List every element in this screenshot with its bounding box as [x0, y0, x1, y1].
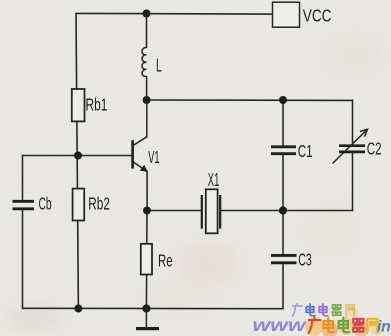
- svg-text:Rb2: Rb2: [88, 194, 110, 214]
- wire bottom ground rail: [23, 307, 284, 309]
- node: C1-C2-C3-X1 junction: [279, 206, 287, 214]
- watermark line2 collage characters: [309, 317, 321, 333]
- inductor L: [142, 47, 147, 76]
- watermark line1 character dian: [306, 304, 315, 316]
- wire C1 bottom through node to C3 top: [282, 155, 284, 254]
- resistor Rb2: [73, 189, 85, 221]
- node: base junction: [74, 152, 82, 160]
- wire emitter node to Re and ground rail: [145, 211, 148, 309]
- transistor V1 emitter diagonal: [133, 162, 147, 171]
- wire left rail: [76, 14, 78, 309]
- wire C2 bottom to node: [283, 153, 353, 210]
- ground bar: [136, 327, 159, 330]
- node: emitter rail bottom junction: [142, 304, 150, 312]
- watermark blobs: [305, 307, 384, 336]
- watermark line1 character qi: [333, 305, 341, 315]
- wire inductor bottom to collector node: [146, 77, 148, 101]
- wire VCC rail to inductor top: [146, 14, 148, 48]
- transistor V1 base bar: [131, 140, 134, 169]
- resistor Rb1: [72, 89, 85, 121]
- watermark line1 character wang: [346, 305, 354, 316]
- wire collector: [133, 100, 147, 146]
- node: emitter / X1 junction: [143, 207, 151, 215]
- wire C3 bottom to ground rail: [282, 264, 284, 309]
- wire base node to Cb: [23, 156, 79, 202]
- svg-text:Re: Re: [158, 251, 173, 271]
- wire C2 top drop: [352, 100, 354, 144]
- svg-text:V1: V1: [148, 147, 159, 167]
- wire emitter vertical: [146, 171, 148, 211]
- transistor V1 emitter arrowhead: [140, 165, 148, 172]
- svg-text:C2: C2: [367, 139, 382, 159]
- wire Cb bottom to ground rail: [22, 209, 24, 309]
- watermark line1 character dian2: [319, 304, 328, 316]
- wire X1 right plate to node: [220, 210, 283, 212]
- svg-text:C1: C1: [298, 141, 313, 161]
- capacitor C1: [271, 147, 296, 154]
- svg-text:Rb1: Rb1: [86, 95, 108, 115]
- capacitor Cb: [13, 201, 35, 209]
- svg-text:C3: C3: [298, 249, 312, 269]
- wire collector node to C2 corner: [147, 99, 353, 101]
- wire emitter node to X1 left plate: [147, 210, 202, 212]
- node: VCC rail / L junction: [143, 10, 151, 18]
- svg-text:VCC: VCC: [303, 6, 332, 26]
- crystal X1 plates: [202, 195, 220, 229]
- node: left rail bottom junction: [74, 305, 82, 313]
- node: C1 top junction: [279, 96, 287, 104]
- capacitor C3: [271, 255, 297, 262]
- wire top rail: [76, 12, 273, 15]
- node: collector / tank junction: [143, 96, 151, 104]
- resistor Re: [141, 244, 152, 275]
- svg-text:X1: X1: [208, 170, 220, 190]
- svg-text:Cb: Cb: [39, 194, 52, 214]
- variable capacitor C2: [339, 146, 365, 152]
- ground stub: [145, 309, 147, 328]
- variable capacitor C2 arrow: [333, 129, 368, 163]
- crystal X1 body: [206, 189, 218, 233]
- watermark line1 character guang: [292, 304, 302, 317]
- svg-text:L: L: [156, 56, 162, 76]
- VCC supply box: [273, 2, 300, 27]
- wire C1 top drop: [282, 100, 284, 145]
- wire base lead: [78, 155, 132, 157]
